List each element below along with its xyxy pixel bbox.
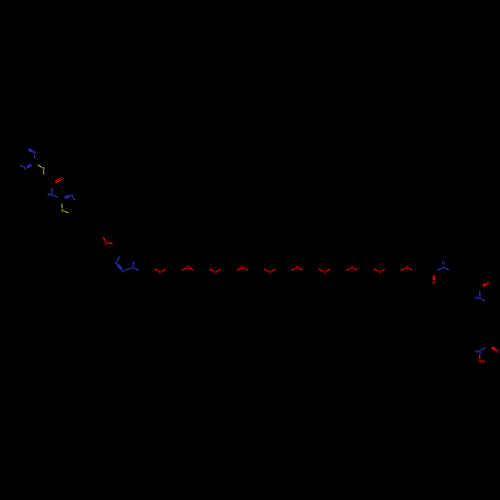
svg-text:N: N: [442, 265, 445, 270]
bond N_am3-CH2_b1: [482, 299, 485, 301]
bond O_peg10-C_ch31: [409, 268, 412, 270]
bond tri_N1-C_ch1: [135, 269, 138, 271]
bond C_d4-C_d5: [482, 332, 490, 339]
bond C_ch25-C_ch26: [361, 267, 370, 272]
bond ph1_0-O_ph: [101, 234, 103, 237]
bond C_ch1-C_ch2: [142, 267, 151, 272]
bond C_d3-C_d4: [481, 325, 489, 332]
bond ph1_2-ph1_3: [79, 212, 84, 225]
bond C_ch23-O_peg8: [343, 270, 346, 272]
bond C_ch19-C_ch20: [307, 267, 316, 272]
svg-text:N: N: [132, 265, 135, 270]
bond C_ch10-C_ch11: [224, 267, 233, 272]
bond N_am4-O_oh: [479, 354, 481, 356]
bond C_co3-O_co3: [480, 286, 483, 288]
bond tz_C4-tz_C5: [71, 203, 77, 214]
bond C_ch14-O_peg5: [261, 267, 264, 269]
bond ph1_0-ph1_1: [87, 234, 101, 236]
svg-text:HN: HN: [475, 349, 481, 354]
bond tri_C5-tri_C4: [122, 252, 134, 255]
bond C_ch11-O_peg4: [234, 270, 237, 272]
bond CH2_o-tri_C4: [118, 244, 122, 253]
bond O_peg8-C_ch25: [354, 268, 357, 270]
bond bz_6-bz_1: [452, 272, 454, 283]
bond C_co2-N_am2: [434, 270, 438, 272]
bond tz_S1-tz_C2: [61, 203, 63, 207]
bond tri_N2-tri_N1: [125, 268, 130, 270]
bond C_ch31-C_ch32: [416, 267, 425, 272]
bond C_co1-O_co1: [52, 183, 56, 185]
bond O_peg5-C_ch16: [272, 269, 275, 271]
bond pm_C5-pm_C6: [16, 148, 25, 153]
bond C_ch29-O_peg10: [398, 270, 401, 272]
bond O_peg4-C_ch13: [245, 268, 248, 270]
svg-text:N: N: [115, 260, 118, 265]
svg-text:S: S: [42, 166, 45, 171]
bond pm_C2-S_a: [35, 163, 38, 165]
bond C_ch7-C_ch8: [197, 267, 206, 272]
bond tri_C4-tri_N3: [119, 253, 121, 257]
bond C_ch28-C_ch29: [389, 267, 398, 272]
bond C_ch22-C_ch23: [334, 267, 343, 272]
bond ph1_5-ph1_0: [101, 221, 106, 234]
bond O_peg7-C_ch22: [327, 269, 330, 271]
svg-text:N: N: [33, 150, 36, 155]
bond C_co1-N_am1: [51, 184, 53, 188]
bond bz_1-bz_2: [453, 267, 462, 272]
bond C_ch8-O_peg3: [206, 267, 209, 269]
bond CH2_b1-C_d1: [481, 303, 489, 310]
svg-text:N: N: [122, 268, 125, 273]
bond C_ch16-C_ch17: [279, 267, 288, 272]
svg-text:H: H: [442, 261, 445, 266]
bond C_ch5-O_peg2: [179, 270, 182, 272]
bond pm_C2-pm_N3: [31, 162, 35, 164]
bond tz_C4-ph1_3: [78, 203, 84, 211]
bond O_peg9-C_ch28: [382, 269, 385, 271]
bond O_peg2-C_ch7: [190, 268, 193, 270]
bond tz_C2-tz_N3: [61, 198, 65, 199]
bond bz_4-C_co3: [471, 282, 480, 287]
bond C_co4-N_am4: [485, 345, 488, 347]
bond pm_C6-pm_N1: [25, 148, 29, 150]
bond C_co3-N_am3: [479, 287, 481, 291]
svg-text:N: N: [24, 166, 27, 171]
bond C_ch17-O_peg6: [288, 270, 291, 272]
bond C_ch32-C_co2: [425, 267, 434, 272]
svg-text:HN: HN: [48, 192, 54, 197]
bond C_ch20-O_peg7: [316, 267, 319, 269]
bond bz_4-bz_5: [462, 282, 471, 287]
bond C_d5-C_co4: [482, 339, 489, 345]
bond CH2_a-C_co1: [44, 179, 52, 185]
bond ph1_1-ph1_2: [79, 225, 88, 236]
bond N_am2-bz_1: [446, 268, 450, 270]
bond O_peg1-C_ch4: [163, 269, 166, 271]
bond pm_N1-pm_C2: [34, 155, 36, 159]
bond O_ph-CH2_o: [109, 242, 113, 244]
bond bz_3-bz_4: [469, 272, 471, 283]
bond O_peg6-C_ch19: [300, 268, 303, 270]
bond C_co2-O_co2: [432, 272, 434, 276]
bond C_ch2-O_peg1: [151, 267, 154, 269]
bond O_peg3-C_ch10: [217, 269, 220, 271]
bond tz_C5-tz_S1: [68, 213, 72, 215]
bond C_ch4-C_ch5: [170, 267, 179, 272]
bond pm_C4-pm_C5: [16, 153, 18, 163]
svg-text:HN: HN: [475, 296, 481, 301]
bond C_d1-C_d2: [481, 310, 489, 317]
bond C_d2-C_d3: [481, 318, 489, 325]
bond N_am1-tz_C2: [54, 196, 57, 198]
bond ph1_4-ph1_5: [98, 210, 107, 221]
bond bz_5-bz_6: [453, 282, 462, 287]
bond pm_N3-pm_C4: [20, 165, 23, 167]
bond bz_2-bz_3: [462, 267, 471, 272]
bond S_a-CH2_a: [43, 171, 45, 175]
bond tri_N1-tri_C5: [132, 261, 134, 265]
bond tri_N3-tri_N2: [117, 265, 121, 269]
bond C_ch26-O_peg9: [370, 267, 373, 269]
bond ph1_3-ph1_4: [84, 210, 98, 212]
svg-text:N: N: [70, 193, 73, 198]
svg-text:S: S: [61, 208, 64, 213]
svg-text:OH: OH: [478, 359, 484, 364]
bond C_co4-O_co4: [488, 346, 492, 348]
bond C_ch13-C_ch14: [252, 267, 261, 272]
bond tz_N3-tz_C4: [73, 197, 76, 200]
